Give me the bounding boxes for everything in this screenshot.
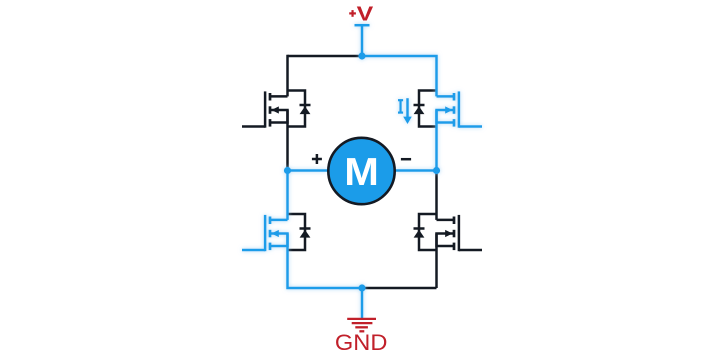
svg-text:M: M [344,152,379,194]
svg-text:V: V [357,2,374,25]
svg-text:GND: GND [335,330,388,355]
